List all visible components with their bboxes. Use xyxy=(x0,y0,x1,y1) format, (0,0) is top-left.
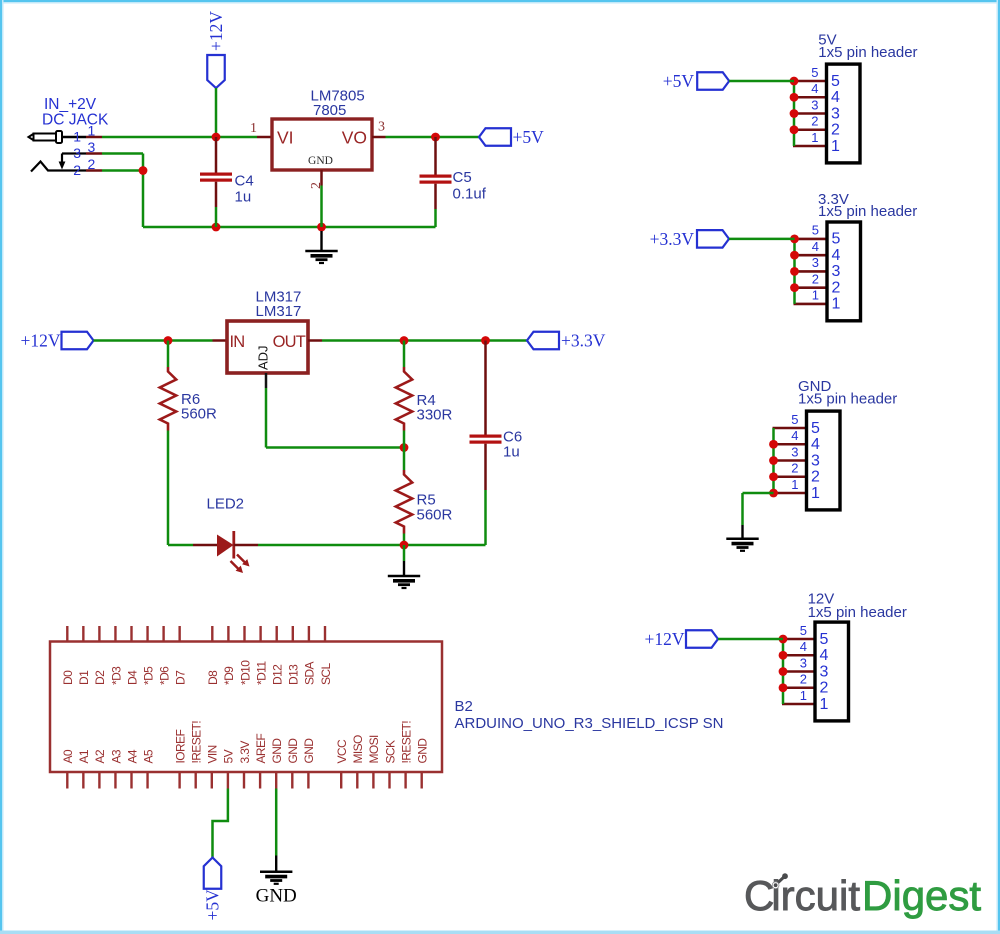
svg-text:1x5 pin header: 1x5 pin header xyxy=(798,390,897,407)
svg-text:IN_+2V: IN_+2V xyxy=(44,96,97,113)
svg-text:5: 5 xyxy=(812,223,819,238)
svg-text:C5: C5 xyxy=(453,169,472,186)
svg-text:2: 2 xyxy=(811,114,818,129)
svg-text:D7: D7 xyxy=(173,670,187,685)
svg-text:1: 1 xyxy=(812,288,819,303)
svg-text:B2: B2 xyxy=(455,698,473,715)
svg-text:3: 3 xyxy=(820,663,829,680)
svg-text:2: 2 xyxy=(831,122,840,139)
svg-text:0.1uf: 0.1uf xyxy=(453,186,487,203)
svg-text:1x5 pin header: 1x5 pin header xyxy=(818,44,917,61)
svg-text:C4: C4 xyxy=(235,173,254,190)
svg-text:4: 4 xyxy=(812,239,819,254)
svg-text:3: 3 xyxy=(378,120,385,135)
svg-text:ADJ: ADJ xyxy=(256,345,271,370)
svg-text:1: 1 xyxy=(832,296,841,313)
svg-text:GND: GND xyxy=(270,738,284,764)
svg-text:5: 5 xyxy=(832,231,841,248)
svg-text:4: 4 xyxy=(791,428,798,443)
svg-text:+5V: +5V xyxy=(663,71,695,91)
svg-text:5: 5 xyxy=(811,65,818,80)
svg-text:2: 2 xyxy=(88,156,96,172)
svg-text:2: 2 xyxy=(800,672,807,687)
svg-text:1: 1 xyxy=(73,129,81,145)
svg-text:1u: 1u xyxy=(503,444,520,461)
svg-text:1: 1 xyxy=(820,696,829,713)
svg-text:1: 1 xyxy=(791,477,798,492)
svg-text:VI: VI xyxy=(277,128,294,148)
svg-text:D4: D4 xyxy=(125,670,139,685)
svg-text:GND: GND xyxy=(286,738,300,764)
svg-text:5: 5 xyxy=(820,631,829,648)
svg-text:A3: A3 xyxy=(109,749,123,763)
svg-text:DC JACK: DC JACK xyxy=(42,112,109,129)
svg-text:VO: VO xyxy=(342,128,367,148)
svg-text:1: 1 xyxy=(88,123,96,139)
svg-text:3: 3 xyxy=(791,444,798,459)
svg-text:3: 3 xyxy=(831,105,840,122)
svg-text:ARDUINO_UNO_R3_SHIELD_ICSP SN: ARDUINO_UNO_R3_SHIELD_ICSP SN xyxy=(455,715,724,732)
svg-text:*D9: *D9 xyxy=(222,666,236,685)
svg-text:*D6: *D6 xyxy=(157,666,171,685)
svg-text:3: 3 xyxy=(73,145,81,161)
svg-text:560R: 560R xyxy=(417,507,453,524)
svg-text:*D10: *D10 xyxy=(238,660,252,685)
svg-text:5: 5 xyxy=(800,623,807,638)
svg-text:AREF: AREF xyxy=(254,734,268,764)
svg-text:VIN: VIN xyxy=(206,745,220,763)
svg-text:4: 4 xyxy=(811,436,820,453)
svg-text:D12: D12 xyxy=(271,664,285,685)
svg-text:OUT: OUT xyxy=(273,333,306,351)
svg-text:3.3V: 3.3V xyxy=(238,741,252,764)
svg-text:3: 3 xyxy=(811,452,820,469)
svg-text:330R: 330R xyxy=(417,407,453,424)
svg-text:*D5: *D5 xyxy=(141,666,155,685)
svg-text:*D11: *D11 xyxy=(254,661,268,685)
svg-text:+5V: +5V xyxy=(513,127,545,147)
svg-text:+12V: +12V xyxy=(20,331,60,351)
svg-text:3: 3 xyxy=(812,255,819,270)
svg-text:D2: D2 xyxy=(93,670,107,685)
svg-text:2: 2 xyxy=(811,469,820,486)
svg-text:1: 1 xyxy=(811,130,818,145)
svg-text:GND: GND xyxy=(308,155,333,167)
svg-text:D1: D1 xyxy=(77,670,91,685)
svg-text:GND: GND xyxy=(256,886,297,907)
svg-text:3: 3 xyxy=(832,263,841,280)
svg-text:5: 5 xyxy=(811,420,820,437)
svg-text:LED2: LED2 xyxy=(207,496,245,513)
svg-text:LM317: LM317 xyxy=(256,303,302,320)
svg-text:MOSI: MOSI xyxy=(367,735,381,764)
svg-text:1x5 pin header: 1x5 pin header xyxy=(808,604,907,621)
svg-text:SCL: SCL xyxy=(319,663,333,685)
svg-text:7805: 7805 xyxy=(313,102,346,119)
svg-text:!RESET!: !RESET! xyxy=(190,721,204,764)
svg-text:D8: D8 xyxy=(206,670,220,685)
svg-text:2: 2 xyxy=(820,680,829,697)
svg-text:+3.3V: +3.3V xyxy=(561,331,606,351)
svg-text:+12V: +12V xyxy=(644,629,684,649)
svg-text:5: 5 xyxy=(791,412,798,427)
svg-text:+12V: +12V xyxy=(206,11,226,51)
svg-text:560R: 560R xyxy=(181,406,217,423)
svg-text:1x5 pin header: 1x5 pin header xyxy=(818,203,917,220)
svg-text:3: 3 xyxy=(800,655,807,670)
svg-text:2: 2 xyxy=(791,461,798,476)
svg-text:MISO: MISO xyxy=(351,735,365,764)
svg-text:2: 2 xyxy=(812,271,819,286)
svg-text:1: 1 xyxy=(250,121,257,136)
svg-text:A1: A1 xyxy=(77,749,91,763)
svg-text:SDA: SDA xyxy=(303,662,317,685)
svg-text:SCK: SCK xyxy=(383,740,397,763)
svg-text:5: 5 xyxy=(831,73,840,90)
svg-text:A0: A0 xyxy=(61,749,75,763)
svg-text:GND: GND xyxy=(302,738,316,764)
svg-text:VCC: VCC xyxy=(335,739,349,763)
svg-text:A2: A2 xyxy=(93,749,107,763)
svg-text:2: 2 xyxy=(73,162,81,178)
svg-text:D0: D0 xyxy=(61,670,75,685)
svg-text:3: 3 xyxy=(88,139,96,155)
svg-text:4: 4 xyxy=(831,89,840,106)
svg-text:+5V: +5V xyxy=(203,889,223,921)
svg-text:1u: 1u xyxy=(235,189,252,206)
svg-text:4: 4 xyxy=(832,247,841,264)
svg-text:5V: 5V xyxy=(222,749,236,763)
svg-text:1: 1 xyxy=(811,485,820,502)
svg-text:4: 4 xyxy=(811,81,818,96)
svg-text:IOREF: IOREF xyxy=(173,730,187,764)
svg-text:4: 4 xyxy=(800,639,807,654)
svg-text:1: 1 xyxy=(831,138,840,155)
svg-text:2: 2 xyxy=(832,279,841,296)
svg-text:!RESET!: !RESET! xyxy=(399,721,413,764)
svg-text:A5: A5 xyxy=(141,749,155,763)
svg-text:1: 1 xyxy=(800,688,807,703)
svg-text:+3.3V: +3.3V xyxy=(650,229,695,249)
svg-text:IN: IN xyxy=(230,333,245,351)
svg-text:D13: D13 xyxy=(287,664,301,685)
svg-text:3: 3 xyxy=(811,97,818,112)
svg-text:GND: GND xyxy=(416,738,430,764)
svg-text:A4: A4 xyxy=(125,749,139,763)
svg-text:4: 4 xyxy=(820,647,829,664)
svg-text:*D3: *D3 xyxy=(109,666,123,685)
